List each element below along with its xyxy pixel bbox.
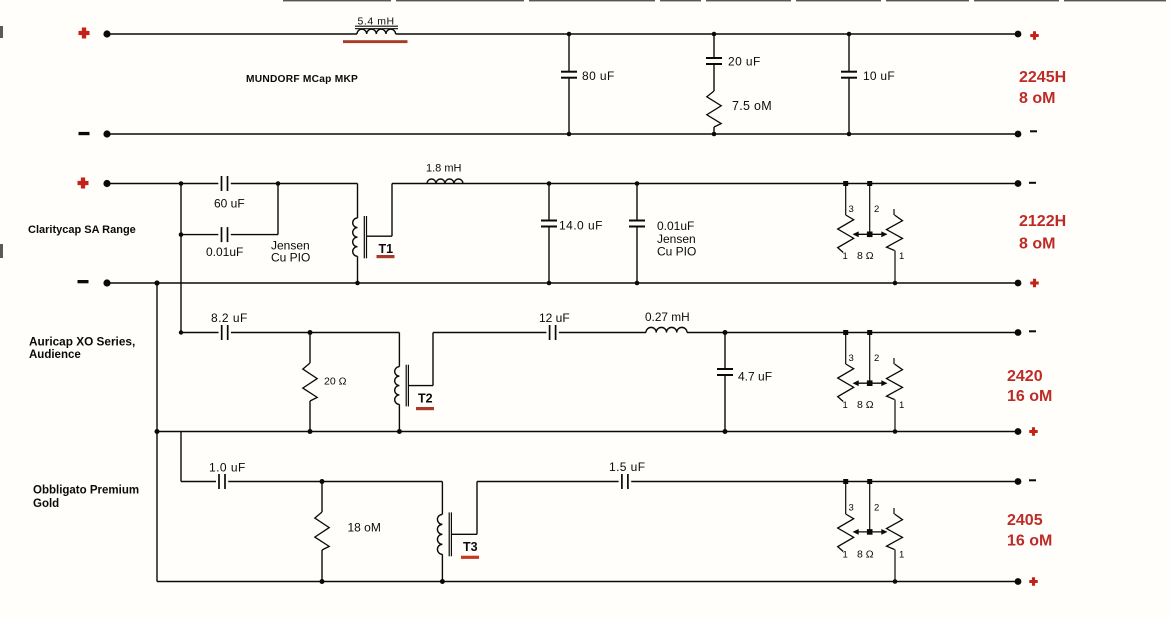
svg-text:80 uF: 80 uF (582, 69, 615, 83)
svg-text:60 uF: 60 uF (214, 197, 245, 211)
svg-text:14.0 uF: 14.0 uF (559, 219, 603, 233)
svg-text:0.01uF: 0.01uF (657, 219, 694, 233)
svg-text:8 Ω: 8 Ω (857, 250, 874, 262)
svg-text:Cu PIO: Cu PIO (271, 251, 310, 265)
svg-text:2420: 2420 (1007, 368, 1043, 385)
svg-text:2245H: 2245H (1019, 69, 1066, 86)
svg-text:1.5 uF: 1.5 uF (609, 460, 645, 474)
svg-text:Obbligato Premium: Obbligato Premium (33, 485, 139, 497)
svg-text:Claritycap SA Range: Claritycap SA Range (28, 224, 136, 236)
svg-text:1: 1 (843, 251, 848, 262)
svg-text:0.27 mH: 0.27 mH (645, 310, 690, 324)
svg-text:2: 2 (874, 353, 879, 364)
svg-text:1: 1 (899, 400, 904, 411)
svg-text:3: 3 (849, 204, 854, 215)
svg-text:8 Ω: 8 Ω (857, 399, 874, 411)
svg-text:2405: 2405 (1007, 512, 1043, 529)
svg-text:3: 3 (849, 353, 854, 364)
svg-text:2: 2 (874, 503, 879, 514)
svg-text:8 Ω: 8 Ω (857, 549, 874, 561)
svg-text:16 oM: 16 oM (1007, 388, 1052, 405)
svg-text:T1: T1 (379, 242, 394, 256)
svg-text:8.2 uF: 8.2 uF (211, 311, 248, 325)
svg-text:MUNDORF MCap MKP: MUNDORF MCap MKP (246, 74, 358, 85)
svg-text:3: 3 (849, 503, 854, 514)
svg-text:T3: T3 (463, 540, 478, 554)
svg-text:Gold: Gold (33, 498, 59, 510)
svg-text:1: 1 (899, 550, 904, 561)
svg-text:2122H: 2122H (1019, 213, 1066, 230)
svg-text:16 oM: 16 oM (1007, 533, 1052, 550)
svg-text:1: 1 (899, 251, 904, 262)
svg-text:12 uF: 12 uF (539, 311, 570, 325)
svg-text:1: 1 (843, 550, 848, 561)
svg-text:1: 1 (843, 400, 848, 411)
svg-text:18 oM: 18 oM (348, 521, 381, 535)
svg-text:8 oM: 8 oM (1019, 90, 1055, 107)
svg-text:5.4 mH: 5.4 mH (358, 15, 395, 27)
svg-text:10 uF: 10 uF (863, 69, 895, 83)
svg-text:Cu PIO: Cu PIO (657, 245, 696, 259)
svg-text:20 Ω: 20 Ω (324, 376, 347, 388)
svg-text:T2: T2 (418, 392, 433, 406)
svg-text:2: 2 (874, 204, 879, 215)
svg-text:0.01uF: 0.01uF (206, 245, 243, 259)
svg-text:7.5 oM: 7.5 oM (732, 99, 772, 113)
svg-text:1.0 uF: 1.0 uF (209, 461, 246, 475)
svg-text:Auricap XO Series,: Auricap XO Series, (29, 335, 135, 349)
svg-text:8 oM: 8 oM (1019, 236, 1055, 253)
svg-text:20 uF: 20 uF (728, 55, 761, 69)
svg-text:Audience: Audience (29, 349, 81, 361)
svg-text:4.7 uF: 4.7 uF (738, 370, 772, 384)
svg-text:1.8 mH: 1.8 mH (426, 163, 462, 175)
